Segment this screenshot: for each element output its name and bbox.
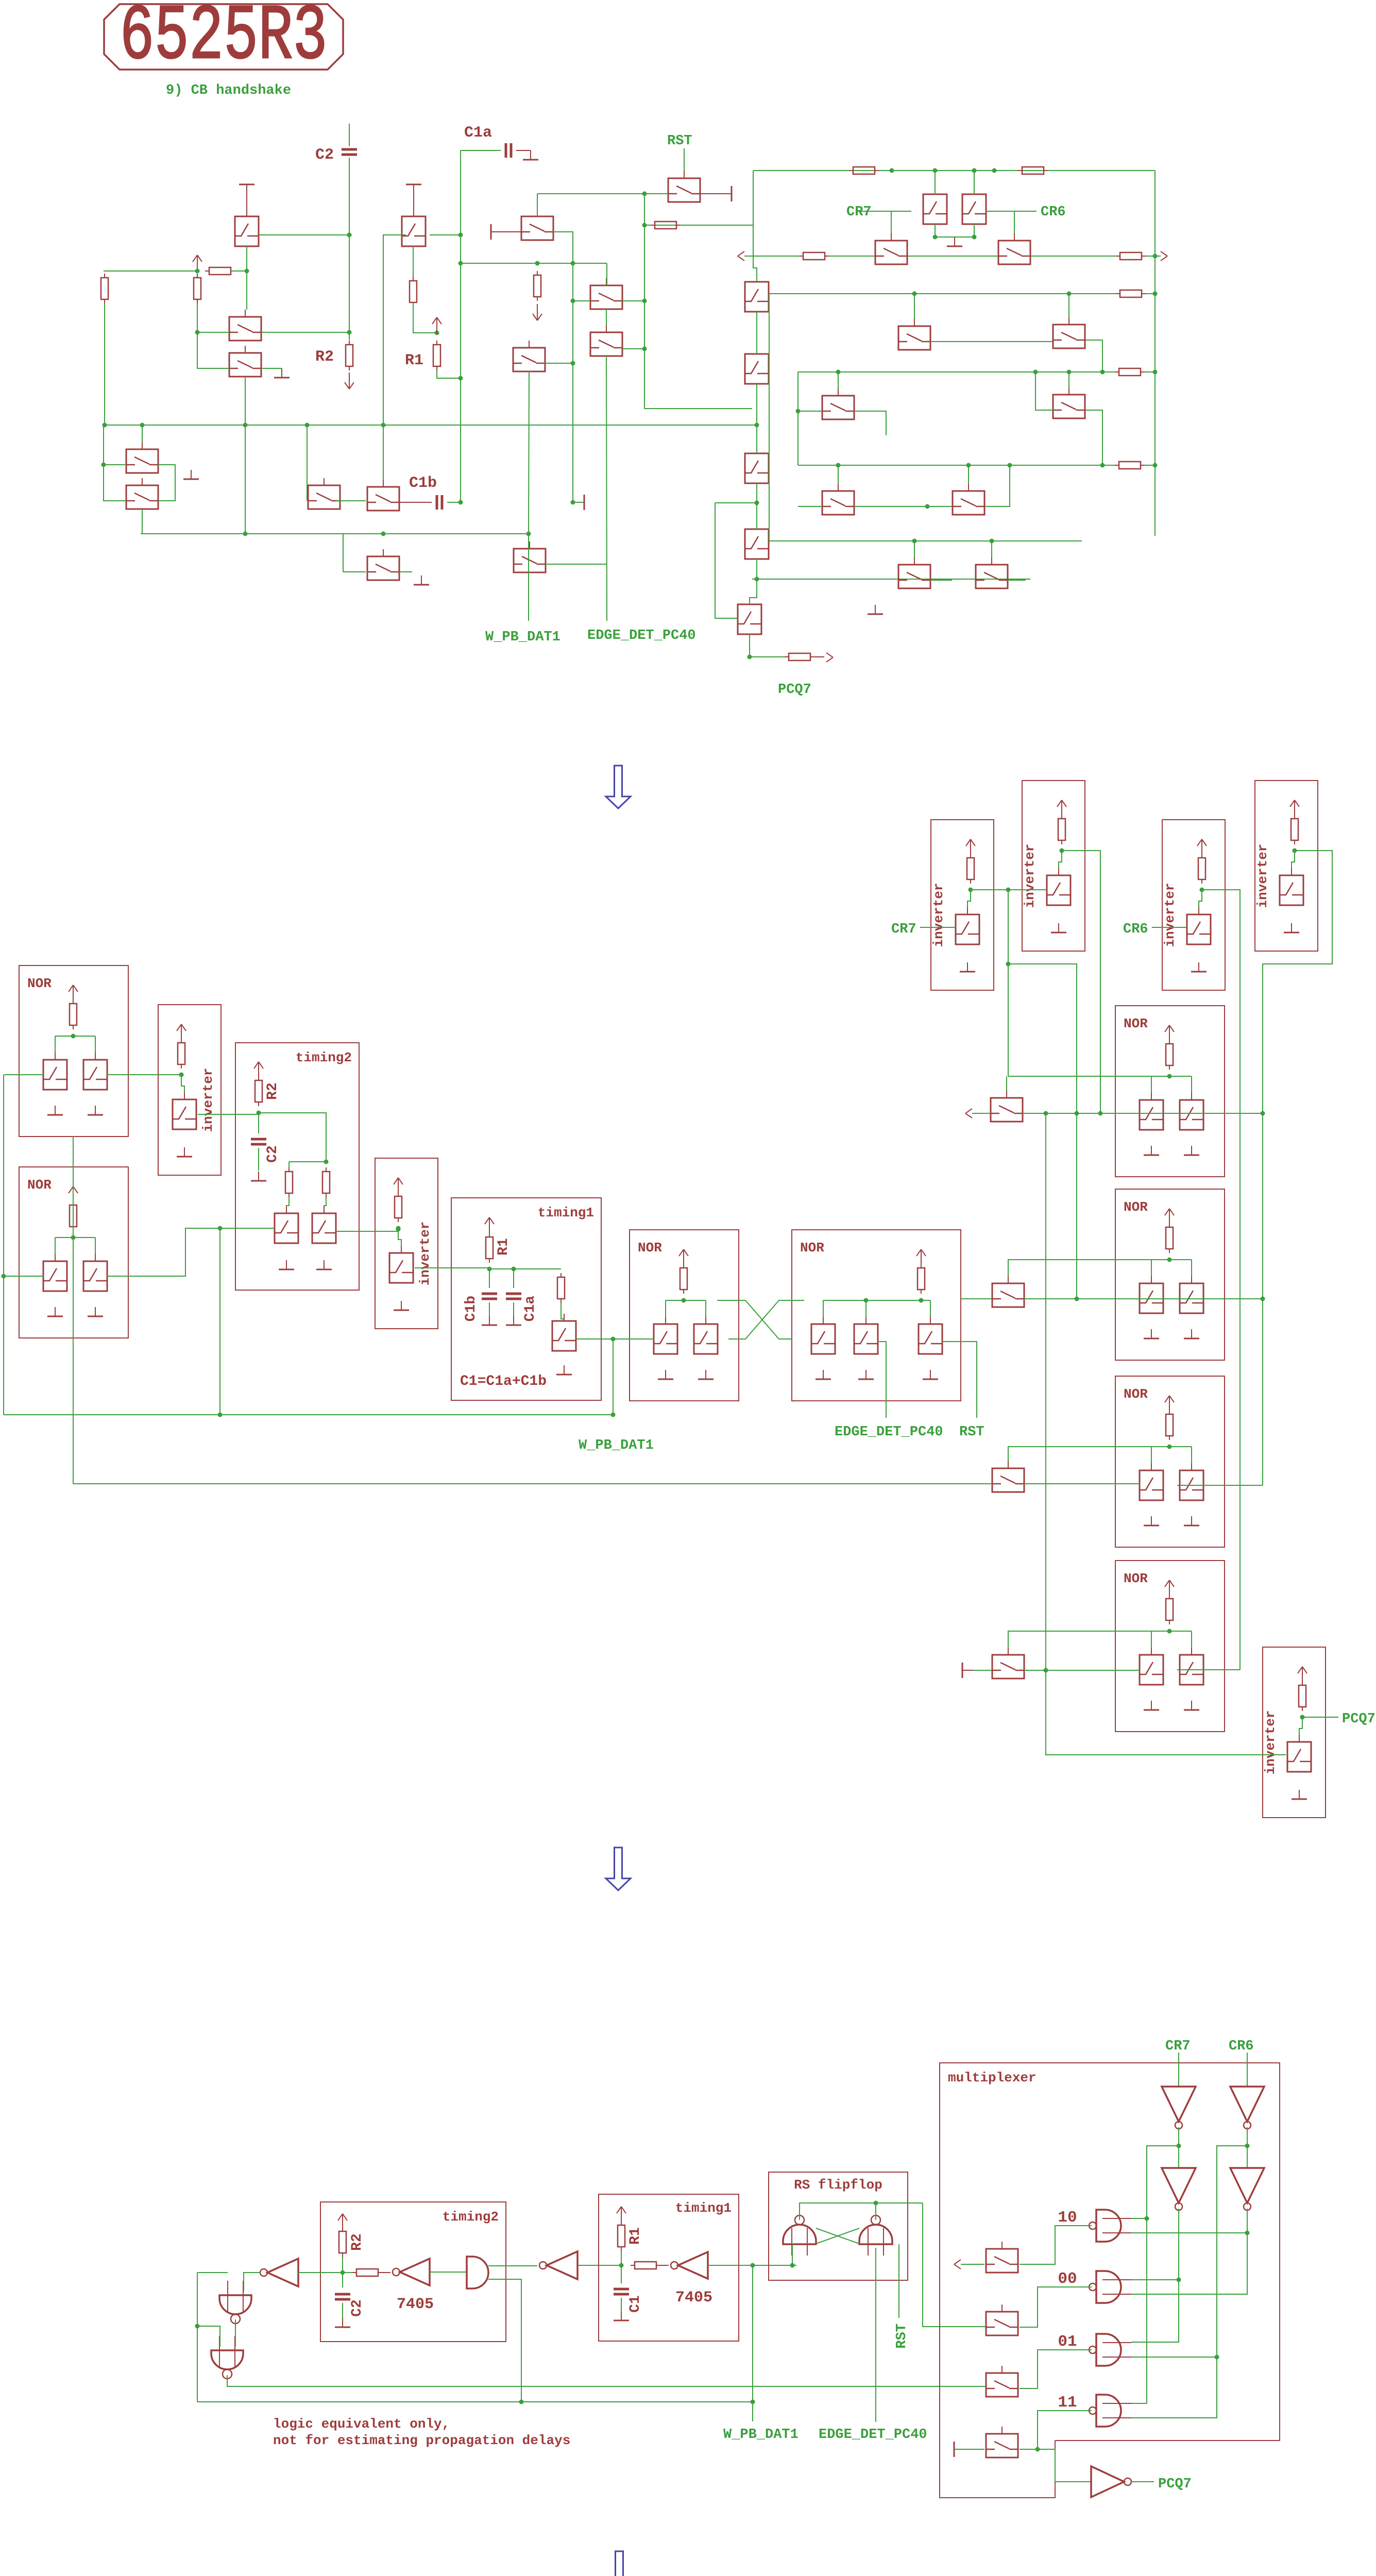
wire <box>1199 890 1202 914</box>
wire rail ext R1 <box>1008 1076 1169 1077</box>
junction <box>755 577 759 582</box>
junction <box>1245 2231 1250 2235</box>
wire <box>561 1303 564 1321</box>
ground <box>665 1370 666 1379</box>
transistor <box>83 1060 107 1090</box>
ground <box>705 1370 706 1379</box>
pull-up resistor <box>1058 819 1065 840</box>
input stub <box>1102 2279 1131 2280</box>
junction <box>969 888 973 892</box>
wire <box>447 502 461 503</box>
transistor Q6 <box>126 485 158 509</box>
wire <box>613 1339 614 1415</box>
transistor <box>389 1253 413 1283</box>
wire S3 to R3 <box>1024 1483 1140 1484</box>
resistor <box>1119 368 1141 376</box>
transistor Q21 <box>745 453 769 483</box>
wire <box>930 1300 931 1317</box>
wire cross a <box>816 2228 859 2244</box>
svg-text:9) CB handshake: 9) CB handshake <box>166 83 291 98</box>
svg-text:R2: R2 <box>315 348 334 366</box>
wire RST <box>684 148 685 178</box>
wire <box>513 1302 514 1318</box>
transistor Q14 <box>998 241 1030 264</box>
inverter M1 <box>1162 2087 1196 2122</box>
wire <box>288 1162 290 1169</box>
pull-up resistor <box>70 1205 77 1227</box>
svg-text:NOR: NOR <box>27 976 52 991</box>
input stub <box>1102 2342 1131 2343</box>
junction <box>1300 1715 1305 1720</box>
ground <box>1058 923 1059 933</box>
junction <box>1300 1715 1305 1720</box>
junction <box>1100 463 1105 468</box>
junction <box>305 423 310 428</box>
wire I1 to timing2 <box>198 1114 259 1115</box>
wire bus right <box>1154 171 1156 536</box>
ground <box>281 368 282 378</box>
wire rail570 <box>769 293 1116 294</box>
resistor <box>557 1277 565 1299</box>
junction <box>458 233 463 238</box>
wire <box>829 256 875 257</box>
wire <box>489 1302 490 1318</box>
wire <box>769 294 770 541</box>
transistor <box>312 1213 336 1243</box>
wire <box>104 464 126 465</box>
wire gate rail <box>1151 1259 1192 1260</box>
VCC arrow <box>621 2207 622 2223</box>
transistor Q19 <box>822 396 854 419</box>
capacitor C2 <box>251 1138 266 1141</box>
wire <box>398 1228 401 1253</box>
wire <box>181 1075 184 1099</box>
wire <box>750 559 757 604</box>
junction <box>919 1298 924 1303</box>
wire A1 in1 <box>488 2265 537 2266</box>
wire <box>1299 1717 1302 1742</box>
VCC arrow <box>342 2214 343 2230</box>
transistor <box>43 1261 67 1291</box>
NOR box R1 <box>1115 1006 1225 1177</box>
svg-text:00: 00 <box>1058 2270 1077 2288</box>
input stub <box>1102 2218 1131 2219</box>
junction <box>179 1073 184 1077</box>
wire <box>665 1300 666 1317</box>
wire gate rail <box>55 1036 95 1037</box>
wire <box>342 2303 343 2321</box>
wire <box>974 1670 992 1671</box>
junction <box>972 235 977 240</box>
junction <box>874 2201 878 2206</box>
transistor M4 <box>513 348 545 371</box>
wire <box>573 300 590 301</box>
wire cross 2 <box>728 1300 804 1339</box>
svg-text:C1: C1 <box>627 2295 643 2313</box>
junction <box>933 168 938 173</box>
ground <box>1191 1516 1192 1526</box>
junction <box>1153 463 1158 468</box>
wire EDGE <box>875 2248 876 2422</box>
VCC arrow <box>1169 1025 1170 1042</box>
wire <box>935 236 974 238</box>
pull-up resistor <box>1291 819 1298 840</box>
junction <box>1145 2216 1149 2221</box>
transistor Q8 <box>367 556 399 580</box>
junction <box>642 192 647 196</box>
wire rail331 <box>753 170 1155 171</box>
wire y376 <box>537 193 644 194</box>
transistor M5 <box>986 2249 1018 2273</box>
wire long 4662 <box>197 2401 753 2402</box>
transistor M7 <box>986 2373 1018 2397</box>
transistor <box>1140 1655 1163 1685</box>
svg-text:RST: RST <box>667 133 692 149</box>
capacitor C2 <box>335 2293 350 2296</box>
svg-text:NOR: NOR <box>1124 1386 1148 1402</box>
junction <box>1060 849 1064 853</box>
wire Q5 Q6 out <box>158 465 175 501</box>
wire <box>1151 1076 1152 1093</box>
pull-up resistor <box>1166 1414 1173 1436</box>
wire timing1 out <box>576 1338 654 1340</box>
transistor S2 <box>992 1283 1024 1307</box>
wire C2 bottom to R2 <box>349 158 350 340</box>
pull-up resistor <box>680 1268 687 1290</box>
junction <box>1100 370 1105 375</box>
junction <box>864 1298 869 1303</box>
wire <box>1146 256 1155 257</box>
wire <box>1059 851 1062 875</box>
wire to G2 <box>197 2326 220 2347</box>
wire <box>104 425 126 501</box>
VCC arrow <box>1302 1667 1303 1683</box>
transistor <box>83 1261 107 1291</box>
wire <box>914 541 915 557</box>
ground <box>1191 1146 1192 1155</box>
wire <box>797 372 799 465</box>
wire <box>298 2272 352 2273</box>
RS flipflop box <box>769 2172 908 2280</box>
svg-text:logic equivalent only,: logic equivalent only, <box>273 2416 450 2432</box>
wire <box>1151 1631 1152 1648</box>
svg-text:C1a: C1a <box>522 1296 538 1322</box>
wire EDGE chain <box>606 356 607 621</box>
svg-text:W_PB_DAT1: W_PB_DAT1 <box>579 1438 654 1453</box>
junction <box>347 330 352 335</box>
resistor R2 <box>346 345 353 366</box>
wire g00 in1 <box>1131 2279 1179 2280</box>
ground <box>930 1370 931 1379</box>
pull-up resistor <box>1198 858 1205 879</box>
ground <box>1191 1701 1192 1710</box>
wire <box>985 465 1010 506</box>
resistor <box>356 2269 378 2276</box>
bar right of Q10 <box>731 186 733 201</box>
svg-text:timing2: timing2 <box>443 2209 499 2225</box>
junction <box>458 261 463 266</box>
blue arrow <box>606 1848 631 1890</box>
junction <box>992 168 997 173</box>
transistor Q27 <box>738 604 761 634</box>
wire <box>258 1113 259 1133</box>
resistor R1 <box>618 2225 625 2247</box>
junction <box>966 463 971 468</box>
timing1 box <box>451 1198 601 1400</box>
ground <box>95 1307 96 1316</box>
transistor <box>173 1099 196 1129</box>
wire <box>854 411 886 435</box>
svg-text:inverter: inverter <box>200 1068 216 1132</box>
junction <box>487 1267 492 1272</box>
wire <box>258 1148 259 1171</box>
blue arrow <box>607 2551 632 2576</box>
wire <box>705 1300 706 1317</box>
wire <box>324 1197 326 1213</box>
wire <box>95 1238 96 1254</box>
junction <box>71 1034 76 1039</box>
transistor Q4 <box>229 353 261 377</box>
junction <box>790 2263 795 2268</box>
T bar S4 <box>962 1663 963 1678</box>
wire I2 out <box>415 1267 489 1268</box>
resistor R1 <box>486 1237 493 1259</box>
wire EDGE_DET_PC40 <box>877 1342 886 1418</box>
wire <box>286 1197 289 1213</box>
wire <box>95 1036 96 1053</box>
wire <box>606 309 607 325</box>
VCC arrow <box>1201 839 1202 856</box>
svg-text:C1b: C1b <box>409 474 437 492</box>
wire M1 gate <box>537 194 538 216</box>
transistor <box>1280 875 1303 905</box>
wire rail ext R4 <box>1008 1631 1169 1648</box>
ground C2 <box>258 1172 259 1181</box>
VCC arrow <box>1169 1209 1170 1225</box>
junction <box>912 539 917 544</box>
wire g01 in2 <box>1131 2357 1217 2358</box>
transistor <box>275 1213 298 1243</box>
junction <box>1167 1629 1172 1634</box>
junction <box>755 501 759 505</box>
wire <box>545 363 573 364</box>
svg-text:NOR: NOR <box>27 1177 52 1193</box>
wire cross 1 <box>717 1300 792 1339</box>
pull-up resistor <box>1299 1685 1306 1707</box>
wire <box>622 348 644 349</box>
T bar M2 <box>584 495 585 510</box>
wire to IE <box>1046 1113 1286 1755</box>
VCC arrow <box>1169 1396 1170 1412</box>
wire <box>930 341 1053 342</box>
arrow out left <box>965 1109 972 1113</box>
wire <box>1292 851 1295 875</box>
svg-text:C1b: C1b <box>463 1296 479 1321</box>
wire <box>1191 1076 1192 1093</box>
transistor Q25 <box>898 565 930 588</box>
ground <box>1299 1790 1300 1799</box>
transistor Q7b <box>308 485 340 509</box>
ground <box>621 2311 622 2320</box>
wire Q2 out down <box>383 235 406 480</box>
input stub <box>1102 2403 1131 2404</box>
wire gate chain <box>197 303 229 368</box>
wire <box>460 223 461 224</box>
resistor R2 <box>255 1080 262 1102</box>
wire long W_PB_DAT1 <box>4 1414 613 1415</box>
inverter box IE <box>1263 1647 1326 1818</box>
wire g11 in1 <box>1131 2403 1147 2404</box>
ground <box>1151 1329 1152 1338</box>
ground <box>967 962 968 972</box>
wire <box>854 506 952 507</box>
svg-text:C2: C2 <box>315 146 334 164</box>
wire <box>756 483 757 529</box>
wire PCQ7 <box>1131 2481 1154 2482</box>
VCC arrow <box>683 1249 684 1266</box>
wire <box>865 1300 867 1317</box>
arrow R2 down <box>349 372 350 389</box>
VDD bar Q1 <box>239 184 254 185</box>
wire <box>1151 1447 1152 1463</box>
junction <box>101 463 106 467</box>
junction <box>1293 849 1297 853</box>
svg-text:W_PB_DAT1: W_PB_DAT1 <box>485 630 560 645</box>
ground <box>1151 1701 1152 1710</box>
transistor S3 <box>992 1468 1024 1492</box>
transistor <box>552 1321 576 1351</box>
junction <box>2 1274 6 1279</box>
NOR box R2 <box>1115 1189 1225 1360</box>
NOR box N1 <box>19 965 128 1137</box>
transistor M6 <box>986 2312 1018 2335</box>
resistor R2 <box>339 2231 346 2253</box>
arrow left <box>738 251 744 256</box>
VCC arrow R1 <box>436 317 437 334</box>
inverter M2 <box>1230 2087 1264 2122</box>
wire <box>1068 294 1069 317</box>
wire in N1 <box>4 1074 43 1075</box>
wire <box>1085 340 1102 372</box>
transistor Q12 CR6 <box>962 194 986 224</box>
wire <box>413 246 414 281</box>
resistor <box>853 167 875 174</box>
junction <box>458 500 463 505</box>
transistor <box>1140 1283 1163 1313</box>
junction <box>990 539 994 544</box>
inverter T1 triangle <box>267 2259 298 2286</box>
junction <box>1153 254 1158 259</box>
VCC arrow <box>73 985 74 1002</box>
inverter PCQ7 <box>1091 2466 1124 2497</box>
AND gate 01 <box>1096 2334 1121 2366</box>
wire left resistor down <box>104 303 105 425</box>
svg-text:C2: C2 <box>349 2299 365 2317</box>
VCC arrow <box>197 255 198 272</box>
ground <box>1291 923 1292 933</box>
AND gate 00 <box>1096 2271 1121 2303</box>
ground <box>513 1316 514 1325</box>
transistor S1 <box>991 1098 1023 1122</box>
wire <box>1191 1631 1192 1648</box>
NOR box N2 <box>19 1167 128 1338</box>
ground <box>191 470 192 479</box>
VCC arrow <box>73 1187 74 1203</box>
wire <box>991 541 992 557</box>
wire left down 2 <box>73 1137 74 1484</box>
wire gate rail <box>55 1237 95 1238</box>
transistor <box>1180 1283 1203 1313</box>
NAND gate G2 <box>211 2350 243 2369</box>
wire <box>967 890 971 914</box>
wire <box>259 1113 326 1162</box>
svg-text:CR6: CR6 <box>1041 205 1066 220</box>
wire Q2 right <box>430 234 461 235</box>
wire T1 out to G1 <box>244 2273 260 2292</box>
wire W_PB_DAT1 <box>528 534 529 621</box>
AND gate A1 <box>467 2257 488 2289</box>
wire CR6 in <box>1247 2053 1248 2086</box>
wire C1a down <box>460 150 461 502</box>
junction <box>1177 2144 1181 2148</box>
NAND gate FR <box>859 2225 892 2244</box>
junction <box>341 2270 345 2275</box>
wire <box>914 294 915 319</box>
wire G1 out to G2 <box>235 2319 236 2347</box>
wire N1 to I1 <box>107 1074 181 1075</box>
capacitor C1b <box>436 495 438 510</box>
junction <box>836 370 841 375</box>
resistor <box>101 278 108 299</box>
svg-text:RST: RST <box>894 2324 910 2349</box>
transistor Q18 <box>1053 325 1085 348</box>
transistor <box>1180 1100 1203 1130</box>
junction <box>642 299 647 303</box>
junction <box>526 532 531 536</box>
wire W_PB_DAT1 <box>752 2265 753 2421</box>
ground <box>875 605 876 614</box>
NOR box R4 <box>1115 1561 1225 1732</box>
wire <box>715 502 757 503</box>
junction <box>103 423 107 428</box>
svg-text:NOR: NOR <box>638 1240 662 1256</box>
transistor Q10 RST <box>668 178 700 202</box>
junction <box>925 504 930 509</box>
wire <box>219 1228 220 1415</box>
NAND gate G1 <box>219 2295 251 2314</box>
junction <box>1261 1297 1265 1301</box>
svg-text:R2: R2 <box>349 2233 365 2251</box>
wire IA out <box>971 889 1046 890</box>
wire <box>930 580 952 581</box>
transistor <box>654 1324 677 1354</box>
junction <box>324 1160 329 1164</box>
wire Q9 out <box>546 564 607 565</box>
wire <box>1008 890 1009 1076</box>
junction <box>245 269 249 274</box>
transistor Q7 <box>367 487 399 511</box>
transistor M3 <box>590 332 622 356</box>
junction <box>748 655 752 659</box>
transistor M1 <box>521 216 553 240</box>
inverter M3 <box>1162 2168 1196 2203</box>
wire <box>621 2251 622 2283</box>
arrow right <box>826 653 833 657</box>
junction <box>611 1413 616 1417</box>
wire S2 to R2 <box>1024 1298 1263 1299</box>
junction <box>571 361 575 366</box>
wire <box>342 2257 343 2287</box>
